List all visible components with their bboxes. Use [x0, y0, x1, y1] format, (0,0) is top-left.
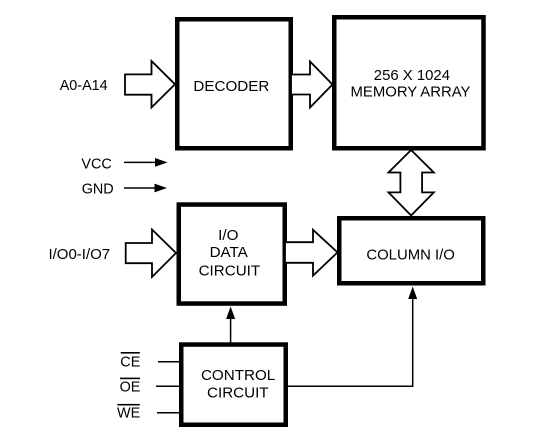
wire OE input [156, 385, 181, 387]
wire VCC arrow [124, 158, 168, 167]
block CONTROL CIRCUIT [181, 345, 286, 425]
wire WE input [157, 412, 181, 414]
svg-text:VCC: VCC [81, 156, 111, 172]
node label I/O0-I/O7 [48, 246, 110, 263]
svg-text:DATA: DATA [210, 244, 249, 261]
block COLUMN I/O [339, 218, 483, 283]
node label A0-A14 [60, 78, 108, 94]
svg-text:WE: WE [117, 406, 140, 422]
svg-text:GND: GND [82, 182, 114, 198]
node label CE (active low) [120, 352, 140, 371]
svg-text:COLUMN I/O: COLUMN I/O [366, 248, 455, 264]
svg-text:CIRCUIT: CIRCUIT [207, 385, 269, 402]
node label GND [82, 182, 114, 198]
svg-text:OE: OE [120, 379, 141, 395]
node label VCC [81, 156, 111, 172]
bus arrow DECODER to MEMORY ARRAY [291, 62, 333, 108]
bus arrow I/O0-I/O7 to I/O DATA CIRCUIT [126, 230, 176, 278]
bus arrow I/O DATA CIRCUIT to COLUMN I/O [285, 230, 338, 276]
bidirectional bus arrow MEMORY ARRAY to COLUMN I/O [389, 150, 434, 216]
svg-text:A0-A14: A0-A14 [60, 78, 108, 94]
svg-text:I/O: I/O [218, 227, 238, 244]
node label WE (active low) [117, 404, 140, 422]
svg-text:I/O0-I/O7: I/O0-I/O7 [48, 246, 110, 263]
wire GND arrow [124, 184, 167, 193]
svg-text:256 X 1024: 256 X 1024 [374, 68, 450, 84]
svg-text:CIRCUIT: CIRCUIT [199, 262, 261, 279]
bus arrow A0-A14 to DECODER [125, 61, 175, 108]
wire CONTROL CIRCUIT to COLUMN I/O arrow [288, 287, 417, 387]
block DECODER [177, 19, 291, 148]
svg-text:CE: CE [120, 355, 140, 371]
svg-text:MEMORY ARRAY: MEMORY ARRAY [351, 84, 471, 100]
block I/O DATA CIRCUIT [179, 205, 285, 304]
svg-text:DECODER: DECODER [193, 78, 269, 95]
block 256 X 1024 MEMORY ARRAY [334, 17, 483, 148]
svg-text:CONTROL: CONTROL [201, 367, 275, 384]
wire CE input [158, 361, 181, 363]
node label OE (active low) [120, 378, 141, 396]
wire CONTROL CIRCUIT to I/O DATA CIRCUIT arrow [226, 307, 235, 345]
